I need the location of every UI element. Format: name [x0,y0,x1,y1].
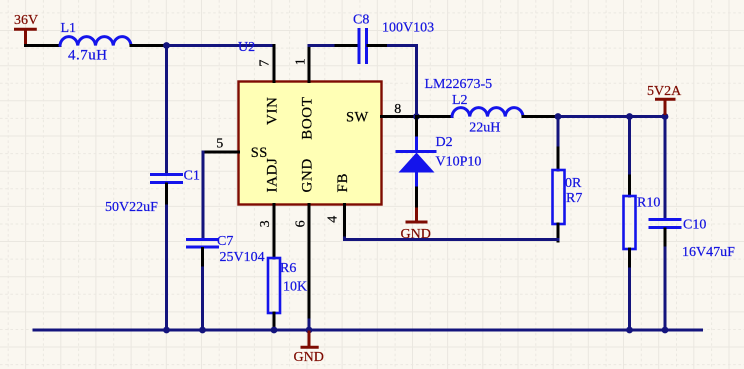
wire C7 to ground bus [201,268,204,330]
ground GND under U2 [301,332,319,347]
pin number 3 [258,220,273,227]
junction R10 tap [626,113,633,120]
svg-text:4: 4 [326,216,341,223]
svg-text:6: 6 [294,220,309,227]
svg-text:R7: R7 [566,191,582,206]
label 36V [14,13,38,28]
pin 5 SS [203,151,239,154]
junction SW node [413,113,420,120]
junction C1 ground [163,327,170,334]
pin name VIN [265,97,281,125]
label 25V104 [220,250,265,265]
svg-text:0R: 0R [565,176,582,191]
wire C10 to ground bus [664,248,667,330]
pin number 8 [394,102,401,117]
junction R10 ground [626,327,633,334]
svg-text:GND: GND [294,350,324,365]
svg-text:C10: C10 [683,218,706,233]
wire input node to U2 VIN [167,44,275,47]
capacitor C8 [336,30,389,63]
svg-text:3: 3 [258,220,273,227]
label C8 [353,13,369,28]
svg-text:5V2A: 5V2A [647,84,682,99]
svg-text:36V: 36V [14,13,38,28]
svg-text:1: 1 [293,58,308,65]
label C7 [217,234,233,249]
svg-text:R6: R6 [280,261,296,276]
junction C10 tap [662,113,669,120]
svg-text:V10P10: V10P10 [436,155,482,170]
wire output node to 5V rail [558,115,665,118]
label 50V22uF [105,200,158,215]
label C10 [683,218,706,233]
resistor R7 [553,148,565,241]
wire U2 BOOT to C8 [309,44,336,47]
wire L1 to input node [131,44,167,47]
capacitor C10 [650,220,680,249]
svg-text:GND: GND [300,158,316,192]
label LM22673-5 [425,77,493,92]
pin name FB [335,173,351,193]
pin name IADJ [265,158,281,193]
pin number 4 [326,216,341,223]
ground GND under D2 [406,209,428,222]
svg-text:R10: R10 [637,196,660,211]
label R6 [280,261,296,276]
svg-text:4.7uH: 4.7uH [68,47,108,63]
capacitor C1 [152,175,182,207]
wire C1 to ground bus [165,206,168,330]
wire L2 to output node [523,115,558,118]
wire output node to R7 [557,117,560,149]
svg-text:10K: 10K [283,280,307,295]
wire FB to R7 [345,238,559,240]
pin 7 VIN [273,46,276,82]
svg-text:BOOT: BOOT [300,97,316,140]
pin name SW [346,110,369,126]
IC U2 (LM22673-5 buck regulator) [239,82,382,205]
svg-text:5: 5 [216,137,223,152]
wire U2 GND pin to ground bus [308,320,311,330]
svg-text:16V47uF: 16V47uF [682,245,735,260]
label 0R [565,176,582,191]
svg-text:7: 7 [258,60,273,67]
svg-text:L1: L1 [61,21,77,36]
label D2 [436,135,453,150]
label 4.7uH [68,47,108,63]
label R7 [566,191,582,206]
svg-text:D2: D2 [436,135,453,150]
svg-text:FB: FB [335,173,351,193]
svg-text:C7: C7 [217,234,233,249]
wire 5V rail to R10 [628,117,631,177]
pin 1 BOOT [308,46,311,82]
capacitor C7 [188,240,218,269]
pin number 5 [216,137,223,152]
svg-text:C1: C1 [184,169,200,184]
label 100V103 [382,21,434,36]
junction C7 ground [199,327,206,334]
svg-text:8: 8 [394,102,401,117]
label GND under U2 [294,350,324,365]
label V10P10 [436,155,482,170]
svg-text:L2: L2 [452,93,468,108]
svg-text:25V104: 25V104 [220,250,265,265]
svg-text:LM22673-5: LM22673-5 [425,77,493,92]
power port 5V2A [655,99,676,116]
label GND under D2 [401,227,431,242]
resistor R10 [624,176,636,269]
inductor L2 [452,108,523,117]
wire R10 to ground bus [628,269,631,330]
pin number 6 [294,220,309,227]
label L1 [61,21,77,36]
label 10K [283,280,307,295]
junction U2 GND [306,327,313,334]
label R10 [637,196,660,211]
svg-text:22uH: 22uH [469,121,500,136]
diode D2 [397,117,435,210]
svg-text:U2: U2 [238,40,255,55]
pin 6 GND [308,205,311,321]
pin 8 SW [382,115,417,118]
svg-text:IADJ: IADJ [265,158,281,193]
junction output node [555,113,562,120]
wire 5V rail to C10 [664,117,667,219]
svg-text:VIN: VIN [265,97,281,125]
wire ground bus [34,329,702,332]
pin name GND [300,158,316,192]
pin 4 FB [343,205,346,239]
pin number 7 [258,60,273,67]
label 16V47uF [682,245,735,260]
svg-text:50V22uF: 50V22uF [105,200,158,215]
resistor R6 [268,258,280,330]
wire 36V to L1 [26,44,61,47]
pin number 1 [293,58,308,65]
inductor L1 [60,37,131,46]
wire SW node to L2 [417,115,453,118]
junction C10 ground [662,327,669,334]
wire input node to C1 [165,46,168,174]
junction input node [163,42,170,49]
wire C8 to SW node [389,46,417,117]
svg-text:100V103: 100V103 [382,21,434,36]
label U2 [238,40,255,55]
junction R6 ground [271,327,278,334]
label C1 [184,169,200,184]
label 5V2A [647,84,682,99]
pin name SS [251,145,268,161]
pin 3 IADJ [273,205,276,259]
pin name BOOT [300,97,316,140]
label 22uH [469,121,500,136]
svg-text:SW: SW [346,110,369,126]
power port 36V [14,29,37,45]
label L2 [452,93,468,108]
svg-text:C8: C8 [353,13,369,28]
wire SS to C7 [202,152,205,238]
